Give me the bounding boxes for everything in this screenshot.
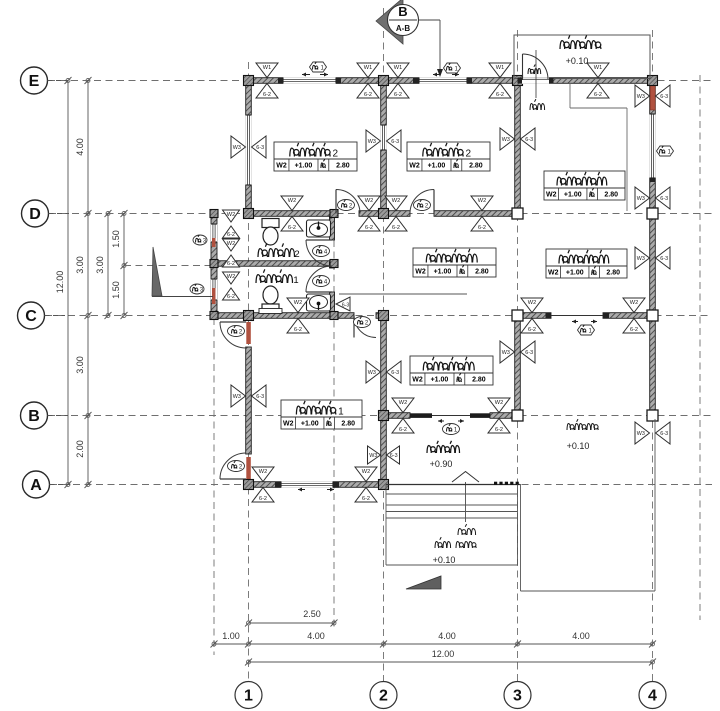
svg-text:W2: W2 bbox=[548, 270, 559, 277]
svg-text:1: 1 bbox=[244, 688, 253, 705]
svg-text:+1.00: +1.00 bbox=[301, 421, 319, 428]
svg-text:W2: W2 bbox=[227, 241, 235, 247]
svg-text:+0.90: +0.90 bbox=[430, 459, 453, 469]
svg-text:W2: W2 bbox=[365, 198, 373, 204]
svg-text:6-2: 6-2 bbox=[478, 225, 486, 231]
svg-text:6-2: 6-2 bbox=[227, 294, 235, 300]
svg-text:3: 3 bbox=[513, 688, 522, 705]
svg-text:W2: W2 bbox=[495, 400, 503, 406]
svg-text:+1.00: +1.00 bbox=[431, 377, 449, 384]
svg-text:6-3: 6-3 bbox=[391, 139, 399, 145]
svg-text:W2: W2 bbox=[227, 212, 235, 218]
svg-text:E: E bbox=[29, 73, 40, 90]
svg-text:B: B bbox=[398, 4, 407, 19]
svg-text:6-3: 6-3 bbox=[256, 145, 264, 151]
svg-text:4.00: 4.00 bbox=[572, 631, 590, 641]
svg-text:A-B: A-B bbox=[396, 24, 410, 33]
svg-text:6-2: 6-2 bbox=[362, 496, 370, 502]
svg-text:W2: W2 bbox=[362, 469, 370, 475]
svg-text:2: 2 bbox=[294, 249, 299, 260]
svg-text:1.50: 1.50 bbox=[111, 281, 121, 299]
svg-text:4.00: 4.00 bbox=[307, 631, 325, 641]
svg-text:+0.10: +0.10 bbox=[566, 56, 589, 66]
svg-text:12.00: 12.00 bbox=[55, 271, 65, 294]
svg-text:6-3: 6-3 bbox=[660, 196, 668, 202]
svg-text:A: A bbox=[30, 477, 42, 494]
svg-text:W2: W2 bbox=[294, 300, 302, 306]
svg-text:W2: W2 bbox=[227, 274, 235, 280]
svg-text:+0.10: +0.10 bbox=[567, 441, 590, 451]
svg-text:W2: W2 bbox=[259, 469, 267, 475]
svg-text:2.00: 2.00 bbox=[75, 440, 85, 458]
svg-text:D: D bbox=[29, 206, 41, 223]
svg-text:6-2: 6-2 bbox=[394, 92, 402, 98]
svg-text:W3: W3 bbox=[369, 453, 377, 459]
svg-text:W1: W1 bbox=[496, 65, 504, 71]
svg-text:2.80: 2.80 bbox=[341, 421, 355, 428]
svg-text:W2: W2 bbox=[528, 300, 536, 306]
svg-text:2: 2 bbox=[332, 149, 338, 160]
svg-text:1.00: 1.00 bbox=[222, 631, 240, 641]
svg-text:6-3: 6-3 bbox=[525, 137, 533, 143]
svg-text:W3: W3 bbox=[637, 196, 645, 202]
svg-text:W1: W1 bbox=[394, 65, 402, 71]
svg-text:6-3: 6-3 bbox=[390, 453, 398, 459]
svg-text:W3: W3 bbox=[637, 94, 645, 100]
svg-text:2.80: 2.80 bbox=[475, 269, 489, 276]
svg-text:2.80: 2.80 bbox=[469, 163, 483, 170]
svg-text:2.50: 2.50 bbox=[303, 609, 321, 619]
svg-text:W3: W3 bbox=[233, 145, 241, 151]
svg-text:3.00: 3.00 bbox=[75, 356, 85, 374]
svg-text:W2: W2 bbox=[478, 198, 486, 204]
svg-text:6-2: 6-2 bbox=[288, 225, 296, 231]
svg-text:+1.00: +1.00 bbox=[564, 192, 582, 199]
svg-text:C: C bbox=[25, 308, 37, 325]
svg-text:6-3: 6-3 bbox=[660, 256, 668, 262]
svg-text:W2: W2 bbox=[276, 163, 287, 170]
svg-text:6-3: 6-3 bbox=[256, 394, 264, 400]
svg-text:6-2: 6-2 bbox=[594, 92, 602, 98]
svg-text:2: 2 bbox=[465, 149, 471, 160]
svg-text:1: 1 bbox=[338, 407, 344, 418]
svg-text:6-2: 6-2 bbox=[365, 225, 373, 231]
svg-text:2.80: 2.80 bbox=[472, 377, 486, 384]
svg-text:W2: W2 bbox=[412, 377, 423, 384]
svg-text:W3: W3 bbox=[368, 139, 376, 145]
svg-text:6-3: 6-3 bbox=[660, 431, 668, 437]
svg-text:W3: W3 bbox=[637, 256, 645, 262]
svg-text:W2: W2 bbox=[409, 163, 420, 170]
svg-text:6-2: 6-2 bbox=[227, 261, 235, 267]
svg-text:1: 1 bbox=[293, 275, 298, 286]
svg-text:W1: W1 bbox=[594, 65, 602, 71]
svg-text:6-3: 6-3 bbox=[525, 350, 533, 356]
svg-text:12.00: 12.00 bbox=[432, 649, 455, 659]
svg-text:3.00: 3.00 bbox=[95, 256, 105, 274]
svg-text:W2: W2 bbox=[283, 421, 294, 428]
svg-text:W2: W2 bbox=[630, 300, 638, 306]
svg-text:6-3: 6-3 bbox=[391, 370, 399, 376]
svg-text:W3: W3 bbox=[637, 431, 645, 437]
svg-text:W2: W2 bbox=[288, 198, 296, 204]
svg-text:2.80: 2.80 bbox=[604, 192, 618, 199]
svg-text:W3: W3 bbox=[233, 394, 241, 400]
svg-text:W1: W1 bbox=[263, 65, 271, 71]
svg-text:+1.00: +1.00 bbox=[428, 163, 446, 170]
svg-text:6-3: 6-3 bbox=[660, 94, 668, 100]
svg-text:W3: W3 bbox=[502, 350, 510, 356]
svg-text:W2: W2 bbox=[415, 269, 426, 276]
svg-text:6-2: 6-2 bbox=[294, 327, 302, 333]
svg-text:W1: W1 bbox=[364, 65, 372, 71]
svg-text:6-2: 6-2 bbox=[399, 427, 407, 433]
svg-text:W2: W2 bbox=[392, 198, 400, 204]
svg-text:+1.00: +1.00 bbox=[566, 270, 584, 277]
svg-text:4.00: 4.00 bbox=[75, 138, 85, 156]
svg-text:4: 4 bbox=[648, 688, 657, 705]
svg-text:6-2: 6-2 bbox=[496, 92, 504, 98]
svg-text:B: B bbox=[28, 408, 40, 425]
svg-text:6-2: 6-2 bbox=[227, 232, 235, 238]
svg-text:2.80: 2.80 bbox=[606, 270, 620, 277]
svg-text:2: 2 bbox=[379, 688, 388, 705]
svg-text:+0.10: +0.10 bbox=[433, 555, 456, 565]
svg-text:W2: W2 bbox=[399, 400, 407, 406]
svg-text:+1.00: +1.00 bbox=[295, 163, 313, 170]
svg-text:6-2: 6-2 bbox=[392, 225, 400, 231]
svg-text:3.00: 3.00 bbox=[75, 256, 85, 274]
svg-text:W2: W2 bbox=[546, 192, 557, 199]
svg-text:6-2: 6-2 bbox=[495, 427, 503, 433]
svg-text:6-2: 6-2 bbox=[364, 92, 372, 98]
svg-text:6-2: 6-2 bbox=[263, 92, 271, 98]
svg-text:4.00: 4.00 bbox=[438, 631, 456, 641]
svg-text:6-3: 6-3 bbox=[342, 303, 349, 309]
svg-text:6-2: 6-2 bbox=[259, 496, 267, 502]
svg-text:+1.00: +1.00 bbox=[434, 269, 452, 276]
svg-text:1.50: 1.50 bbox=[111, 230, 121, 248]
svg-text:2.80: 2.80 bbox=[336, 163, 350, 170]
svg-text:W3: W3 bbox=[368, 370, 376, 376]
svg-text:6-2: 6-2 bbox=[630, 327, 638, 333]
svg-text:6-2: 6-2 bbox=[528, 327, 536, 333]
svg-text:W3: W3 bbox=[502, 137, 510, 143]
